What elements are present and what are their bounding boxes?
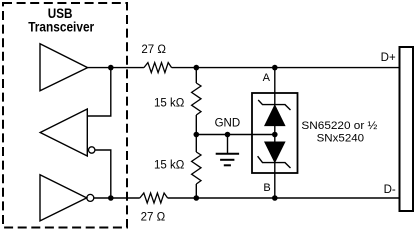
wire: D+ driver output to 27ohm resistor (88, 67, 144, 69)
buffer U1b (differential receiver, pointing left) (40, 109, 87, 156)
wire: D+ node to receiver non-inverting input (87, 68, 111, 116)
USB Transceiver dashed box (3, 3, 127, 228)
resistor 15 kohm (lower) (192, 152, 201, 184)
TVS diode D1 (upper, cathode up) (265, 105, 285, 125)
wire: GND net (15k midpoint to TVS common anode) (196, 134, 274, 136)
wire: 15k pull-down chain vertical segments (195, 68, 197, 198)
svg-text:Transceiver: Transceiver (28, 19, 94, 35)
junction dot (D- driver output node) (108, 195, 114, 201)
svg-text:SN65220 or ½: SN65220 or ½ (301, 120, 377, 132)
svg-text:15 kΩ: 15 kΩ (154, 98, 185, 110)
junction dot (D+ / 15k node) (194, 65, 200, 71)
svg-text:27 Ω: 27 Ω (141, 212, 166, 224)
resistor 15 kohm (upper) (192, 83, 201, 115)
junction dot (TVS common anode) (272, 132, 278, 138)
svg-text:SNx5240: SNx5240 (317, 133, 365, 145)
svg-text:GND: GND (215, 118, 241, 130)
buffer U1c (D- inverting driver) (40, 175, 87, 221)
ground symbol (216, 135, 239, 166)
wire: D- driver output to 27ohm resistor (94, 197, 140, 199)
junction dot (15k midpoint) (194, 132, 200, 138)
svg-text:B: B (263, 182, 270, 194)
node B junction dot (272, 195, 278, 201)
node A junction dot (272, 65, 278, 71)
junction dot (ground stub) (225, 132, 231, 138)
inverter bubble on receiver inverting input (89, 147, 95, 153)
resistor 27 ohm (D- line) (140, 193, 168, 203)
buffer U1a (D+ driver) (40, 44, 88, 91)
junction dot (D- / 15k node) (194, 195, 200, 201)
inverter bubble on D- driver output (87, 194, 94, 201)
wire: 27ohm to connector D+ (172, 67, 400, 69)
junction dot (D+ driver output node) (108, 65, 114, 71)
svg-text:D-: D- (384, 184, 396, 196)
svg-text:27 Ω: 27 Ω (141, 44, 166, 56)
wire: node A to node B vertical through TVS (274, 68, 276, 198)
svg-text:D+: D+ (381, 52, 396, 64)
TVS suppressor box U2 (252, 93, 298, 173)
svg-text:15 kΩ: 15 kΩ (154, 160, 185, 172)
wire: receiver inverting input to D- node (95, 150, 111, 198)
svg-text:A: A (263, 72, 271, 84)
resistor 27 ohm (D+ line) (144, 63, 172, 73)
wire: 27ohm to connector D- (168, 197, 400, 199)
TVS diode D2 (lower, cathode down) (265, 142, 285, 162)
USB connector bar (400, 47, 414, 211)
